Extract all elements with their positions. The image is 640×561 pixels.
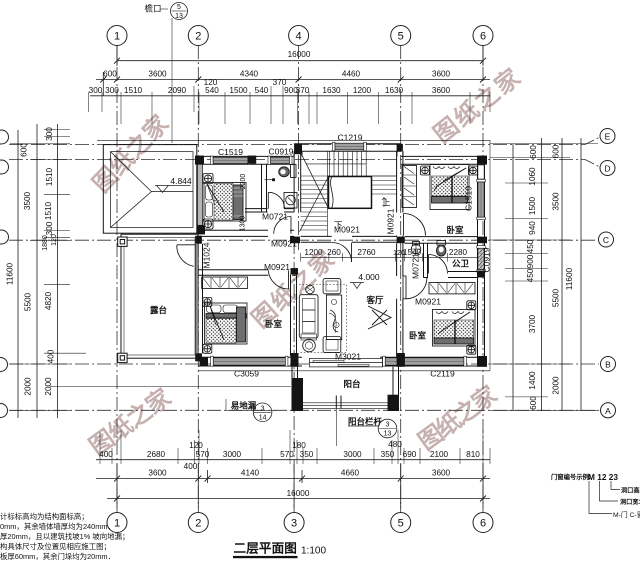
gongwei: door M0721 (429, 255, 448, 274)
svg-text:350: 350 (300, 450, 314, 459)
svg-text:4.000: 4.000 (358, 272, 380, 282)
notes block bottom-left (0, 512, 129, 561)
axis 6 vertical (482, 45, 484, 513)
axis5 wall: stair right (397, 151, 403, 236)
svg-text:600: 600 (529, 145, 538, 159)
svg-text:1630: 1630 (322, 86, 341, 95)
svg-text:3000: 3000 (223, 450, 242, 459)
svg-text:3600: 3600 (432, 70, 451, 79)
svg-text:600: 600 (552, 144, 561, 158)
window C0919 right (477, 246, 486, 272)
svg-text:690: 690 (403, 450, 417, 459)
svg-text:4.844: 4.844 (170, 176, 192, 186)
axis5 wall lower (397, 243, 403, 357)
living room: armchair bottom (323, 337, 341, 353)
level 4.844 (155, 176, 192, 192)
svg-text:C1519: C1519 (464, 186, 474, 211)
axis 4 vertical (top) (298, 45, 300, 250)
svg-text:M0921: M0921 (415, 297, 441, 307)
svg-text:C1219: C1219 (337, 133, 362, 143)
bottom overall dim line 16000 (107, 498, 490, 500)
svg-text:6: 6 (480, 518, 486, 530)
bedroom top-mid: bed (204, 183, 246, 222)
svg-text:E: E (605, 132, 611, 142)
left dim chains (17, 130, 19, 418)
axis bubble C left (cut) (0, 230, 9, 244)
bath top-mid: washing machine (284, 193, 297, 209)
svg-text:2: 2 (195, 31, 201, 43)
svg-text:1400: 1400 (528, 371, 537, 390)
svg-text:3: 3 (261, 405, 265, 412)
axis bubble B right (601, 357, 616, 372)
svg-text:4340: 4340 (240, 70, 259, 79)
svg-text:卧室: 卧室 (446, 225, 464, 235)
svg-text:2280: 2280 (449, 248, 468, 257)
svg-text:1500: 1500 (528, 196, 537, 215)
svg-text:1880: 1880 (42, 235, 49, 251)
axis bubble 3 bottom (284, 513, 304, 533)
left dims rotated (6, 127, 59, 396)
door M1024 to terrace (177, 245, 195, 266)
svg-text:300: 300 (105, 86, 119, 95)
svg-text:5: 5 (398, 31, 404, 43)
svg-text:C1519: C1519 (218, 147, 243, 157)
title (233, 542, 326, 559)
svg-text:3000: 3000 (343, 450, 362, 459)
hallway top wall (bedroom bottom) (198, 230, 294, 236)
svg-text:900: 900 (526, 254, 535, 268)
bedroom top-right: bed (430, 165, 469, 210)
level 4.000 (350, 272, 380, 289)
door bedroom bottom-left (268, 270, 288, 289)
eave outline (97, 140, 490, 370)
bath top-mid: drain arrow (265, 178, 276, 181)
svg-text:300: 300 (45, 221, 54, 235)
labels (150, 133, 492, 390)
svg-text:0mm，其余墙体墙厚均为240mm．: 0mm，其余墙体墙厚均为240mm． (0, 522, 115, 531)
svg-text:卧室: 卧室 (265, 319, 283, 329)
stairs (300, 150, 397, 236)
svg-text:1300: 1300 (240, 216, 247, 232)
axis A horizontal (9, 409, 599, 411)
svg-text:3700: 3700 (528, 314, 537, 333)
window C1219 (332, 142, 366, 151)
svg-text:120: 120 (204, 78, 218, 87)
hip roof diagonals (111, 152, 194, 228)
svg-text:11600: 11600 (565, 267, 574, 290)
callout 3/13 (balcony rail) (348, 417, 397, 438)
axis bubble 2 bottom (188, 513, 208, 533)
watermarks (84, 62, 527, 461)
svg-text:600: 600 (529, 396, 538, 410)
stair treads right flight (371, 176, 396, 194)
svg-text:上: 上 (382, 198, 391, 208)
callout 3/14 (floor drain) (226, 399, 276, 422)
svg-text:120: 120 (189, 441, 203, 450)
bath bottom (gongwei) walls (405, 237, 478, 278)
legend bottom-right (551, 472, 640, 519)
svg-text:5500: 5500 (552, 288, 561, 307)
bedroom bottom-right: bed (433, 310, 476, 347)
svg-text:3600: 3600 (148, 469, 167, 478)
roof box over porch (103, 145, 197, 234)
svg-text:C0919: C0919 (268, 147, 293, 157)
svg-text:A: A (605, 406, 611, 416)
bedroom top-mid: nightstand top (203, 174, 213, 184)
eave callout leader (171, 18, 173, 143)
balcony post mid (black) (336, 396, 341, 447)
svg-text:M1024: M1024 (202, 242, 212, 268)
svg-text:公卫: 公卫 (452, 259, 470, 269)
svg-text:1060: 1060 (528, 167, 537, 186)
bedroom bottom-right: wardrobe (429, 283, 475, 294)
gongwei: toilet (436, 241, 446, 257)
svg-text:370: 370 (273, 78, 287, 87)
window C1519 top (211, 156, 251, 165)
svg-text:M0921: M0921 (271, 238, 297, 248)
svg-text:2000: 2000 (552, 376, 561, 395)
axis bubble D right (600, 161, 615, 176)
hall interior dim line (301, 253, 478, 262)
top dim line row3 (90, 95, 490, 97)
axis bubble 5 top (391, 26, 411, 46)
svg-text:450: 450 (526, 268, 535, 282)
bottom annotations (0, 0, 1, 1)
bath top-mid walls (245, 164, 294, 212)
svg-text:2760: 2760 (357, 248, 376, 257)
svg-text:3: 3 (291, 518, 297, 530)
svg-text:2090: 2090 (168, 86, 187, 95)
svg-text:2200: 2200 (240, 174, 247, 190)
svg-text:4: 4 (296, 31, 302, 43)
axis bubble 6 bottom (473, 513, 493, 533)
stairwell top wall (294, 144, 401, 151)
axis B horizontal (9, 363, 599, 365)
svg-text:1540: 1540 (403, 248, 422, 257)
stair treads top flight (329, 151, 366, 176)
living room: rug edge (299, 285, 346, 353)
living room: sofa left (299, 295, 318, 340)
svg-text:C3059: C3059 (234, 369, 259, 379)
svg-text:5: 5 (398, 518, 404, 530)
svg-text:180: 180 (292, 441, 306, 450)
svg-text:1200: 1200 (304, 248, 323, 257)
axis bubble 1 bottom (107, 513, 127, 533)
bedroom bottom-left: nightstands (203, 298, 212, 307)
svg-text:3600: 3600 (148, 70, 167, 79)
svg-text:阳台栏杆: 阳台栏杆 (348, 417, 383, 427)
axis 2 vertical (197, 45, 199, 513)
stair diagonals (300, 150, 329, 231)
stair left wall (294, 154, 301, 242)
axis C horizontal (9, 239, 598, 241)
axis bubble E left (cut) (0, 130, 9, 144)
balcony post left (black) (292, 378, 303, 411)
hall bottom wall (198, 270, 297, 276)
svg-text:16000: 16000 (287, 489, 310, 498)
stair bottom wall (301, 236, 397, 242)
svg-text:1200: 1200 (353, 86, 372, 95)
svg-text:810: 810 (466, 450, 480, 459)
axis grid (9, 45, 600, 513)
svg-text:1: 1 (114, 31, 120, 43)
right outer wall (478, 164, 485, 356)
svg-text:门窗编号示例:: 门窗编号示例: (551, 472, 591, 481)
door M0921 bedroom top-right (404, 214, 426, 236)
svg-text:14: 14 (259, 415, 267, 422)
svg-text:二层平面图: 二层平面图 (234, 542, 297, 556)
bedroom top-mid: nightstand bottom (203, 219, 213, 229)
svg-text:3500: 3500 (23, 191, 32, 210)
svg-text:940: 940 (528, 221, 537, 235)
balcony door band right (white) (478, 165, 484, 179)
svg-text:D: D (604, 164, 610, 174)
axis bubble B left (cut) (0, 358, 8, 372)
svg-text:1510: 1510 (44, 201, 53, 220)
svg-text:540: 540 (205, 86, 219, 95)
bedroom top-mid left wall (198, 164, 203, 225)
window C3059 bottom (211, 356, 288, 366)
svg-text:M 12 23: M 12 23 (588, 472, 618, 482)
svg-text:120: 120 (51, 234, 58, 246)
furniture (177, 165, 478, 355)
axis bubble 4 top (289, 26, 309, 46)
svg-text:2000: 2000 (24, 377, 33, 396)
window C0919 top (268, 156, 292, 165)
svg-text:13: 13 (384, 431, 392, 438)
svg-text:M-门 C-窗: M-门 C-窗 (613, 510, 640, 519)
living room: entry arrow (368, 306, 391, 329)
svg-text:构具体尺寸及位置见相应施工图；: 构具体尺寸及位置见相应施工图； (0, 542, 111, 551)
svg-text:易地漏: 易地漏 (231, 401, 257, 411)
svg-text:M0921: M0921 (264, 262, 290, 272)
svg-text:300: 300 (89, 86, 103, 95)
svg-text:厚20mm，且以建筑找坡1% 坡向地漏；: 厚20mm，且以建筑找坡1% 坡向地漏； (0, 532, 129, 541)
bedroom top-right: wardrobe (402, 166, 417, 208)
svg-text:B: B (605, 360, 611, 370)
svg-text:3600: 3600 (432, 86, 451, 95)
stair flight boundary line (326, 151, 328, 236)
top dim line row2 (96, 79, 490, 81)
svg-text:370: 370 (296, 86, 310, 95)
door M0921 stair bottom (332, 243, 352, 263)
gongwei: washbasin (411, 242, 421, 254)
axis bubble 6 top (473, 26, 493, 46)
top wall bedroom block left (axis2-3) (198, 156, 294, 164)
svg-text:1510: 1510 (45, 167, 54, 186)
terrace parapet (121, 234, 198, 358)
svg-text:5500: 5500 (24, 292, 33, 311)
axis bubble 2 top (188, 26, 208, 46)
svg-text:4820: 4820 (44, 291, 53, 310)
svg-text:3: 3 (386, 422, 390, 429)
bottom dim row2 (96, 478, 490, 480)
living room: plant top-left (306, 285, 315, 294)
balcony rails (292, 367, 399, 411)
bath top-mid: toilet (279, 165, 296, 178)
balcony post right (black) (388, 395, 399, 411)
svg-text:16000: 16000 (288, 50, 311, 59)
axis bubble E right (600, 129, 615, 144)
svg-text:洞口宽12: 洞口宽12 (620, 498, 640, 506)
up arrow label line (382, 198, 386, 208)
svg-text:2100: 2100 (430, 450, 449, 459)
lower roof edge line (50, 386, 291, 388)
svg-text:露台: 露台 (150, 305, 168, 315)
svg-text:260: 260 (327, 248, 341, 257)
bedroom bottom-left: wardrobe (202, 277, 248, 288)
axis bubble A left (cut) (0, 404, 8, 418)
svg-text:C0919: C0919 (482, 247, 492, 272)
svg-text:1510: 1510 (124, 86, 143, 95)
svg-text:600: 600 (20, 143, 29, 157)
column blocks (black) (195, 144, 487, 367)
svg-text:450: 450 (526, 239, 535, 253)
svg-text:1500: 1500 (229, 86, 248, 95)
svg-text:4660: 4660 (341, 469, 360, 478)
eave callout top (144, 3, 187, 21)
svg-text:570: 570 (196, 450, 210, 459)
svg-text:1630: 1630 (385, 86, 404, 95)
axis bubble D left (cut) (0, 160, 9, 174)
stair landing (329, 177, 372, 209)
terrace corner post bottom (118, 353, 127, 362)
stair top wall connectors (294, 151, 403, 156)
axis bubble 1 top (107, 26, 127, 46)
svg-text:400: 400 (47, 349, 56, 363)
svg-text:M3021: M3021 (335, 352, 361, 362)
bedroom/living separator wall (291, 274, 297, 356)
svg-text:13: 13 (175, 13, 183, 20)
svg-text:2680: 2680 (147, 450, 166, 459)
building (50, 140, 490, 446)
svg-text:350: 350 (381, 450, 395, 459)
svg-text:600: 600 (103, 70, 117, 79)
svg-text:3500: 3500 (552, 192, 561, 211)
svg-text:板厚60mm，其余门垛均为20mm．: 板厚60mm，其余门垛均为20mm． (0, 552, 115, 561)
axis bubble A right (601, 403, 616, 418)
axis 3 vertical (bottom) (293, 240, 295, 513)
bedroom bottom-left: bed (205, 303, 248, 344)
living room: round table (303, 339, 316, 352)
svg-text:400: 400 (99, 450, 113, 459)
svg-text:洞口高23: 洞口高23 (621, 487, 640, 495)
axis E horizontal (9, 137, 600, 145)
top wall bedroom right (axis5-6) (401, 156, 483, 164)
bottom dim row1 (96, 459, 490, 461)
top overall dim line 16000 (117, 60, 483, 62)
svg-text:C: C (603, 235, 609, 245)
bottom outer wall (198, 357, 483, 366)
svg-text:客厅: 客厅 (365, 295, 384, 305)
axis 1 vertical (116, 45, 118, 513)
svg-text:计标标高均为结构面标高；: 计标标高均为结构面标高； (0, 512, 89, 521)
svg-text:5: 5 (177, 4, 181, 11)
svg-text:M0721: M0721 (262, 212, 288, 222)
svg-text:檐口: 檐口 (144, 4, 161, 14)
svg-text:1:100: 1:100 (301, 546, 326, 557)
window C1519 right (477, 179, 486, 219)
svg-text:4140: 4140 (241, 469, 260, 478)
window C2119 bottom (383, 356, 467, 366)
svg-text:570: 570 (280, 450, 294, 459)
svg-text:400: 400 (184, 462, 198, 471)
right dims rotated (526, 144, 574, 410)
bedroom bottom-right: nightstands (467, 301, 476, 310)
sliding door M3021 bottom (309, 358, 382, 367)
svg-text:M0921: M0921 (386, 208, 396, 234)
svg-text:11600: 11600 (6, 262, 15, 285)
svg-text:6: 6 (480, 31, 486, 43)
svg-text:阳台: 阳台 (343, 379, 361, 389)
axis bubble C right (599, 232, 614, 247)
svg-text:3600: 3600 (432, 469, 451, 478)
svg-text:540: 540 (255, 86, 269, 95)
terrace/bedroom separating wall (196, 244, 203, 354)
stair treads left flight (301, 181, 328, 231)
axis D horizontal (9, 160, 600, 168)
door M0921 bedroom top-mid (274, 217, 291, 234)
svg-text:下: 下 (334, 220, 343, 230)
terrace corner post top (118, 237, 127, 246)
svg-text:2: 2 (195, 518, 201, 530)
door M0921 bedroom bottom-right (403, 276, 427, 299)
svg-text:300: 300 (45, 127, 54, 141)
svg-text:480: 480 (388, 440, 402, 449)
axis bubble 5 bottom (391, 513, 411, 533)
living room: coffee table (326, 295, 341, 340)
svg-text:卧室: 卧室 (409, 331, 427, 341)
axis 5 vertical (400, 45, 402, 513)
right dim chains (512, 144, 514, 411)
bath top-mid: door M0721 (268, 192, 284, 208)
bedroom top-right: nightstands (421, 166, 430, 175)
svg-text:4460: 4460 (342, 70, 361, 79)
svg-text:C2119: C2119 (430, 369, 455, 379)
living room: armchair top (323, 279, 341, 294)
